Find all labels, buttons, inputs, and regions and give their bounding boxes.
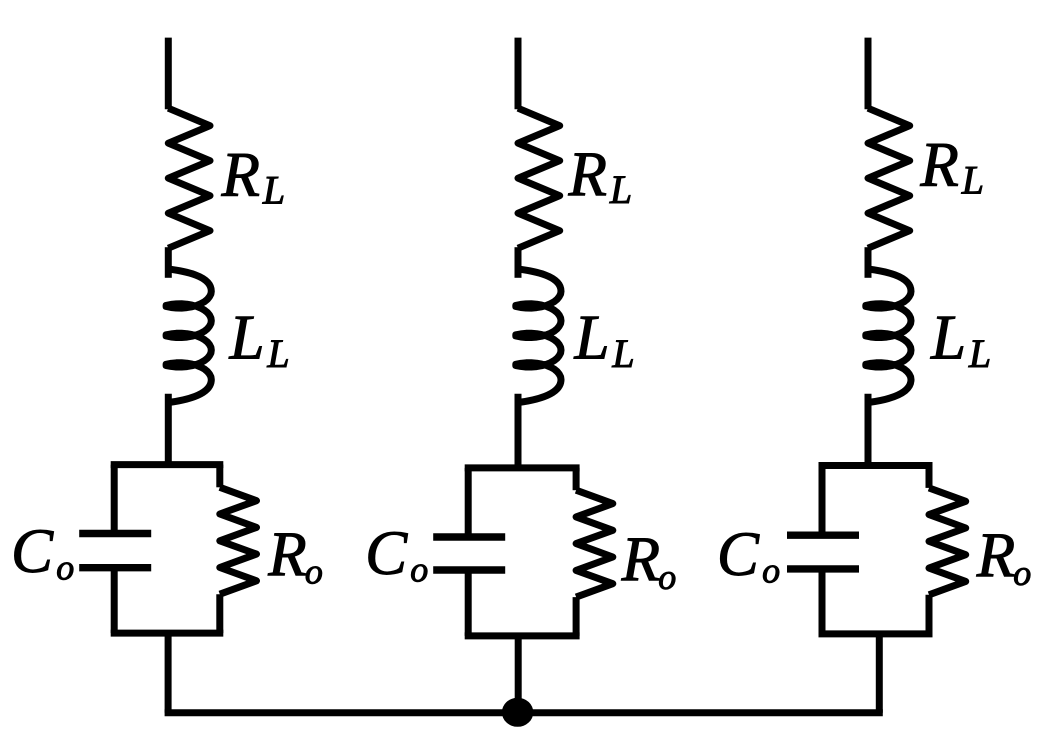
junction dot at common node — [502, 698, 533, 727]
wire: L_L to parallel node (branch 2) — [515, 394, 522, 468]
svg-text:C: C — [365, 518, 408, 588]
wire: C_o upper lead (branch 1) — [111, 465, 118, 534]
node: top rail of parallel C_o / R_o (branch 3) — [822, 462, 929, 469]
svg-text:o: o — [762, 550, 780, 590]
wire: R_o lower lead (branch 2) — [573, 597, 580, 636]
wire: R_L to L_L (branch 2) — [515, 247, 522, 278]
svg-text:R: R — [221, 140, 260, 210]
resistor R_L (branch 3) — [868, 108, 910, 248]
svg-text:L: L — [574, 303, 610, 373]
wire: R_o upper lead (branch 2) — [573, 468, 580, 490]
wire: C_o upper lead (branch 2) — [465, 468, 472, 537]
wire: C_o upper lead (branch 3) — [819, 466, 826, 536]
svg-text:L: L — [229, 303, 265, 373]
svg-text:R: R — [976, 521, 1015, 591]
wire: branch 2 down lead to common bus — [515, 636, 522, 713]
svg-text:L: L — [961, 157, 984, 202]
inductor L_L (branch 3) — [866, 269, 911, 403]
capacitor C_o plates (branch 1) — [79, 530, 151, 537]
wire: C_o lower lead (branch 3) — [819, 569, 826, 634]
svg-text:L: L — [611, 331, 634, 376]
wire: R_o lower lead (branch 1) — [216, 594, 223, 633]
wire: C_o lower lead (branch 2) — [465, 570, 472, 636]
wire: R_L to L_L (branch 1) — [165, 247, 172, 278]
resistor R_o (branch 3) — [929, 488, 966, 595]
node: bottom rail of parallel C_o / R_o (branch 1) — [114, 630, 220, 637]
node: top rail of parallel C_o / R_o (branch 2) — [468, 464, 576, 471]
svg-text:C: C — [11, 516, 54, 586]
svg-text:o: o — [410, 550, 428, 590]
svg-text:o: o — [56, 548, 74, 588]
wire: R_o upper lead (branch 3) — [926, 466, 933, 488]
svg-text:L: L — [968, 331, 991, 376]
wire: top lead of branch 2 — [515, 38, 522, 110]
inductor L_L (branch 2) — [516, 269, 561, 403]
wire: branch 1 down lead to common bus — [165, 633, 172, 713]
wire: R_o upper lead (branch 1) — [216, 465, 223, 488]
node: top rail of parallel C_o / R_o (branch 1) — [114, 461, 220, 468]
svg-text:C: C — [717, 519, 760, 589]
svg-text:L: L — [609, 167, 632, 212]
wire: common bottom bus — [168, 709, 879, 716]
wire: top lead of branch 1 — [165, 38, 172, 110]
wire: C_o lower lead (branch 1) — [111, 568, 118, 633]
wire: R_o lower lead (branch 3) — [926, 595, 933, 634]
wire: R_L to L_L (branch 3) — [865, 247, 872, 278]
svg-text:R: R — [568, 140, 607, 210]
wire: top lead of branch 3 — [865, 38, 872, 110]
resistor R_o (branch 2) — [576, 490, 613, 597]
svg-text:o: o — [658, 557, 676, 597]
capacitor C_o plates (branch 3) — [787, 532, 859, 539]
node: bottom rail of parallel C_o / R_o (branch 3) — [822, 630, 929, 637]
svg-text:L: L — [262, 167, 285, 212]
wire: branch 3 down lead to common bus — [876, 634, 883, 713]
wire: L_L to parallel node (branch 3) — [865, 394, 872, 466]
inductor L_L (branch 1) — [166, 269, 211, 403]
node: bottom rail of parallel C_o / R_o (branch 2) — [468, 632, 576, 639]
resistor R_L (branch 1) — [168, 108, 210, 248]
wire: L_L to parallel node (branch 1) — [165, 394, 172, 465]
svg-text:R: R — [919, 130, 958, 200]
resistor R_o (branch 1) — [220, 487, 257, 594]
capacitor C_o plates (branch 2) — [433, 533, 505, 540]
resistor R_L (branch 2) — [518, 108, 560, 248]
svg-text:R: R — [621, 525, 660, 595]
svg-text:o: o — [1013, 553, 1031, 593]
svg-text:L: L — [930, 303, 966, 373]
svg-text:L: L — [266, 331, 289, 376]
svg-text:o: o — [305, 552, 323, 592]
svg-text:R: R — [267, 519, 306, 589]
